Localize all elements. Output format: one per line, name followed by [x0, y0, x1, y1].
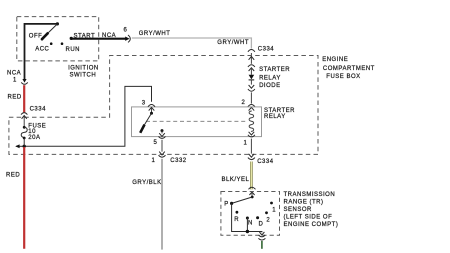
fuse F10 10A (FUSE 10 20A)	[23, 126, 26, 129]
relay terminal 2 connector	[248, 105, 255, 107]
relay switch node	[150, 112, 153, 115]
junction node at fuse output	[23, 145, 26, 148]
TR sensor entry connector	[249, 187, 256, 189]
svg-text:C334: C334	[30, 106, 47, 112]
wire GRY/BLK	[161, 159, 163, 250]
svg-text:ENGINE: ENGINE	[322, 57, 348, 63]
TR sensor wiper arm	[232, 197, 253, 203]
TR internal wire P to output	[232, 203, 262, 232]
svg-text:BLK/YEL: BLK/YEL	[222, 177, 250, 183]
connector C334 (left)	[21, 113, 27, 115]
wire: ignition switch common feed	[25, 24, 58, 79]
relay terminal 5 connector	[159, 133, 165, 136]
ignition switch housing (dashed box)	[17, 17, 99, 61]
relay terminal 1 connector	[249, 132, 255, 135]
svg-text:D: D	[259, 221, 264, 227]
svg-text:STARTER: STARTER	[259, 67, 290, 73]
transmission range sensor box (dashed)	[221, 192, 280, 236]
svg-text:5: 5	[154, 140, 158, 146]
TR internal wire N riser	[246, 218, 248, 232]
svg-text:RED: RED	[8, 94, 22, 100]
wire BLK/YEL	[250, 162, 253, 190]
wire RED (upper)	[23, 85, 25, 112]
TR position 2 contact	[265, 211, 268, 214]
TR position R contact	[236, 211, 239, 214]
engine compartment fuse box (dashed outline)	[9, 56, 318, 155]
wire GRY/WHT	[132, 38, 252, 49]
svg-text:P: P	[224, 202, 229, 208]
svg-text:C332: C332	[170, 158, 187, 164]
svg-text:NCA: NCA	[102, 33, 116, 39]
svg-text:N: N	[248, 220, 253, 226]
wire NCA (thick) from START to connector pin 6	[71, 38, 126, 40]
svg-text:C334: C334	[257, 159, 274, 165]
svg-text:NCA: NCA	[7, 71, 21, 77]
connector C334 (bottom right)	[249, 154, 255, 157]
svg-text:RUN: RUN	[66, 47, 81, 53]
svg-text:2: 2	[266, 217, 270, 223]
svg-text:TRANSMISSION: TRANSMISSION	[284, 192, 336, 198]
svg-text:GRY/BLK: GRY/BLK	[132, 180, 161, 186]
svg-text:20A: 20A	[28, 135, 40, 141]
wire green (to starter)	[261, 241, 263, 249]
starter relay diode bottom clip	[249, 85, 255, 88]
relay switch blade	[144, 113, 152, 125]
svg-text:ENGINE COMPT): ENGINE COMPT)	[284, 222, 339, 228]
svg-text:DIODE: DIODE	[259, 83, 281, 89]
svg-text:3: 3	[142, 101, 146, 107]
svg-text:RELAY: RELAY	[259, 76, 281, 82]
position RUN contact	[61, 42, 64, 45]
svg-text:GRY/WHT: GRY/WHT	[139, 31, 171, 37]
starter relay box	[132, 107, 262, 137]
svg-text:IGNITION: IGNITION	[68, 66, 99, 72]
position ACC contact	[50, 42, 53, 45]
TR junction node	[246, 230, 249, 233]
svg-text:FUSE BOX: FUSE BOX	[326, 74, 360, 80]
svg-text:6: 6	[124, 28, 128, 34]
TR sensor exit connector	[259, 232, 264, 235]
svg-text:1: 1	[244, 140, 248, 146]
svg-text:GRY/WHT: GRY/WHT	[217, 40, 249, 46]
relay terminal 3 connector	[148, 105, 155, 107]
wire RED (lower)	[23, 147, 25, 249]
wire stub with left arrow (to other circuits)	[16, 145, 24, 147]
svg-text:SENSOR: SENSOR	[284, 207, 313, 213]
svg-text:SWITCH: SWITCH	[70, 72, 97, 78]
svg-text:RED: RED	[6, 173, 20, 179]
TR position N contact	[246, 217, 249, 220]
relay coil K1	[249, 111, 254, 131]
wire: fuse output to relay terminal 3	[24, 86, 151, 146]
starter relay diode D1	[249, 75, 255, 80]
svg-text:1: 1	[152, 158, 156, 164]
relay internal dashed link	[146, 120, 248, 122]
ignition switch pivot node	[56, 22, 59, 25]
relay terminal 5 node	[161, 129, 164, 132]
starter relay diode top clip	[248, 65, 255, 67]
connector C332	[159, 152, 165, 155]
TR sensor wiper pivot	[251, 196, 254, 199]
svg-text:OFF: OFF	[29, 34, 43, 40]
svg-text:(LEFT SIDE OF: (LEFT SIDE OF	[284, 215, 333, 221]
TR position D contact	[256, 216, 259, 219]
svg-text:C334: C334	[258, 46, 275, 52]
svg-text:2: 2	[242, 100, 246, 106]
connector C334 (top)	[248, 50, 255, 52]
svg-text:R: R	[234, 217, 239, 223]
svg-text:RELAY: RELAY	[264, 114, 286, 120]
position START contact	[70, 37, 73, 40]
svg-text:1: 1	[272, 208, 276, 214]
in-line connector (male arrow / female arc) pin 6	[125, 37, 129, 41]
svg-text:STARTER: STARTER	[264, 108, 295, 114]
svg-text:ACC: ACC	[35, 47, 49, 53]
TR position P contact	[230, 202, 233, 205]
svg-text:RANGE (TR): RANGE (TR)	[284, 200, 324, 206]
TR position 1 contact	[270, 202, 273, 205]
ignition switch blade	[48, 24, 58, 34]
svg-text:COMPARTMENT: COMPARTMENT	[323, 66, 375, 72]
svg-text:1: 1	[13, 78, 17, 84]
